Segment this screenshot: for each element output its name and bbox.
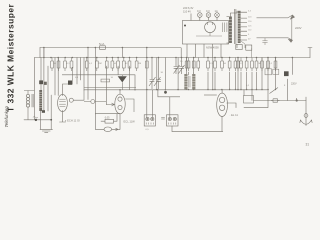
svg-text:Telefunken: Telefunken [4,106,9,128]
svg-text:31: 31 [306,143,310,147]
svg-text:T 332 WLK Meistersuper: T 332 WLK Meistersuper [5,3,15,112]
svg-text:1M: 1M [138,63,141,65]
svg-text:· EL 11: · EL 11 [230,113,239,117]
svg-text:▸ ECH 11 Gl: ▸ ECH 11 Gl [65,118,80,122]
svg-text:220 6,3V: 220 6,3V [183,6,194,10]
svg-text:2M: 2M [258,63,261,65]
svg-text:0,3: 0,3 [197,9,201,13]
svg-text:1A: 1A [215,9,218,13]
svg-text:0,05: 0,05 [105,117,110,120]
svg-text:NSW 4038: NSW 4038 [206,45,219,49]
svg-text:2M: 2M [99,63,102,65]
svg-text:0,3: 0,3 [206,9,210,13]
svg-text:5mA: 5mA [99,42,105,46]
svg-text:ECL 11W: ECL 11W [124,119,136,123]
svg-text:220V: 220V [295,26,302,30]
svg-text:110 4V: 110 4V [183,10,191,14]
svg-text:220V: 220V [291,83,297,86]
